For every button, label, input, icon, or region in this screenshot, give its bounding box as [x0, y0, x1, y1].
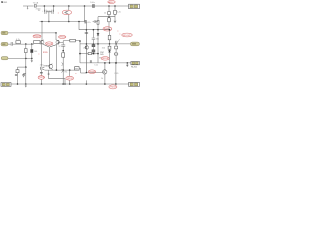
wire positive rail: [23, 5, 129, 7]
wire: [25, 67, 27, 84]
node junction: [115, 62, 117, 64]
node junction: [31, 43, 33, 45]
resistor R209: [108, 6, 110, 11]
resistor R213: [92, 50, 95, 52]
node junction: [127, 62, 129, 64]
resistor R208: [88, 53, 91, 55]
node junction: [93, 43, 95, 45]
wire corner: [49, 70, 65, 84]
wire Q3 base: [44, 65, 50, 67]
ground: [31, 58, 33, 60]
node junction: [108, 16, 110, 18]
connector CN201: [129, 4, 140, 9]
node junction: [25, 43, 27, 45]
column x93 cap: [92, 30, 95, 44]
wire input L: [8, 32, 56, 34]
svg-text:x: x: [38, 54, 39, 56]
node junction: [79, 53, 81, 55]
resistor R215: [109, 44, 111, 46]
svg-text:TR211: TR211: [67, 78, 74, 80]
connector J202: [1, 42, 8, 46]
resistor R216: [115, 44, 117, 46]
transistor Q4: [86, 30, 88, 73]
net label circle E7: [66, 76, 74, 80]
wire: [84, 6, 86, 22]
connector CN202: [130, 42, 139, 46]
svg-text:x: x: [119, 33, 120, 35]
wire lower right bus: [80, 62, 131, 64]
svg-text:TR209: TR209: [89, 72, 96, 74]
capacitor C204: [93, 4, 95, 8]
svg-text:2SC: 2SC: [40, 65, 45, 67]
connector CN204: [1, 83, 11, 87]
node junction: [17, 83, 19, 85]
node junction: [86, 83, 88, 85]
net label A201: [108, 0, 115, 3]
wire: [85, 22, 87, 30]
resistor R207: [70, 39, 76, 42]
net label circle: [103, 27, 112, 31]
wire y73: [86, 72, 102, 74]
fuse F201: [34, 5, 36, 8]
red mark: [117, 31, 120, 36]
ground: [126, 63, 128, 65]
resistor R201b: [16, 41, 21, 44]
node junction: [53, 5, 55, 7]
svg-text:TR202: TR202: [59, 37, 66, 39]
node junction: [69, 83, 71, 85]
node junction: [62, 50, 64, 52]
node junction: [109, 43, 111, 45]
svg-text:TR213: TR213: [39, 77, 46, 79]
node junction: [78, 21, 80, 23]
transistor Q2: [56, 40, 60, 44]
label text 2SC: [100, 52, 105, 56]
label text: [95, 65, 99, 67]
resistor R217: [115, 63, 117, 84]
node junction: [84, 5, 86, 7]
node junction: [48, 21, 50, 23]
node junction: [69, 69, 71, 71]
capacitor C201: [44, 6, 46, 14]
node junction: [56, 69, 58, 71]
node junction: [86, 43, 88, 45]
wire: [55, 33, 57, 40]
node junction: [97, 53, 99, 55]
wire output line: [80, 43, 130, 45]
node junction: [25, 66, 27, 68]
capacitor C210: [15, 74, 17, 75]
resistor R210: [108, 18, 111, 22]
wire: [78, 22, 80, 30]
svg-text:T2.5A: T2.5A: [33, 1, 39, 4]
diode D201: [97, 30, 99, 34]
wire Q2 collector: [55, 45, 57, 70]
svg-text:RL201: RL201: [131, 66, 138, 68]
wire input bus: [8, 57, 32, 59]
node junction: [25, 83, 27, 85]
node junction: [104, 83, 106, 85]
node junction: [97, 43, 99, 45]
node junction: [115, 83, 117, 85]
node junction: [68, 21, 70, 23]
net label circle E6: [88, 70, 95, 74]
resistor R211: [114, 6, 116, 10]
connector J201: [1, 31, 8, 35]
svg-text:VR201: VR201: [102, 58, 109, 60]
transistor Q5: [104, 63, 106, 70]
transistor Q1: [40, 40, 44, 44]
ground: [114, 21, 117, 23]
resistor R218: [97, 17, 99, 21]
node junction: [25, 58, 27, 60]
node junction: [41, 83, 43, 85]
capacitor C209: [31, 44, 33, 49]
wire cap tie: [46, 12, 52, 22]
node junction: [93, 29, 95, 31]
transistor Q3: [49, 64, 53, 68]
svg-text:SP-OUT: SP-OUT: [123, 35, 131, 37]
diode D203: [109, 49, 111, 50]
capacitor C214: [93, 20, 98, 23]
resistor R214: [109, 30, 111, 36]
ground: [25, 84, 27, 86]
wire: [25, 58, 27, 67]
node junction: [97, 29, 99, 31]
loop top wire: [80, 44, 98, 63]
vas column top: [60, 41, 64, 45]
red label: [38, 76, 44, 80]
connector J203: [1, 57, 8, 60]
node junction: [31, 58, 33, 60]
node junction: [55, 32, 57, 34]
ground: [27, 6, 29, 8]
title text: [1, 0, 8, 4]
wire bottom rail: [11, 83, 129, 85]
resistor R204: [17, 67, 19, 69]
capacitor C212: [41, 67, 45, 70]
node junction: [44, 5, 46, 7]
thermistor TH201: [115, 49, 117, 52]
wire mid bus: [40, 21, 85, 23]
resistor R202: [34, 41, 40, 44]
transistor TR203: [68, 6, 70, 22]
node junction: [93, 53, 95, 55]
capacitor C213: [85, 32, 88, 33]
wire: [85, 80, 87, 84]
test point: [115, 41, 117, 43]
wire y67: [18, 66, 26, 68]
node junction: [109, 29, 111, 31]
node junction: [108, 5, 110, 7]
wire: [69, 70, 71, 84]
wire y16.7: [98, 16, 115, 18]
net label circle Q1: [33, 35, 41, 38]
capacitor C202: [52, 6, 54, 14]
svg-text:TR201: TR201: [46, 43, 53, 45]
svg-text:x: x: [117, 31, 118, 33]
node junction: [62, 83, 64, 85]
capacitor C207: [61, 45, 65, 51]
capacitor C208: [90, 60, 91, 63]
capacitor C211: [22, 73, 26, 77]
node junction: [114, 5, 116, 7]
node junction: [64, 83, 66, 85]
node junction: [68, 5, 70, 7]
resistor R206: [62, 53, 65, 57]
node junction: [86, 29, 88, 31]
connector CN205: [129, 82, 140, 86]
resistor R203: [25, 44, 27, 48]
wire vas out: [63, 41, 80, 44]
node junction: [41, 21, 43, 23]
node junction: [86, 72, 88, 74]
transistor pair label TR201: [46, 42, 53, 45]
wire lower mid bus: [45, 69, 75, 71]
capacitor C205: [84, 20, 87, 23]
svg-text:A35V: A35V: [109, 1, 115, 4]
wire tail: [48, 47, 50, 64]
box B1: [75, 67, 80, 70]
net label circle E4: [122, 33, 132, 37]
svg-text:TR201: TR201: [34, 36, 41, 38]
node junction: [109, 62, 111, 64]
node junction: [115, 43, 117, 45]
connector CN203: [131, 61, 140, 64]
svg-text:x: x: [75, 73, 76, 75]
svg-text:x: x: [58, 13, 59, 15]
node junction: [62, 69, 64, 71]
net label circle E5: [99, 57, 101, 59]
wire vas feed: [79, 29, 110, 31]
node junction: [79, 40, 81, 42]
net label circle E8: [109, 85, 117, 89]
svg-text:TR215: TR215: [110, 87, 117, 89]
capacitor C206: [8, 42, 34, 46]
resistor R212: [92, 45, 95, 47]
wire q1 collector lower: [41, 45, 43, 67]
